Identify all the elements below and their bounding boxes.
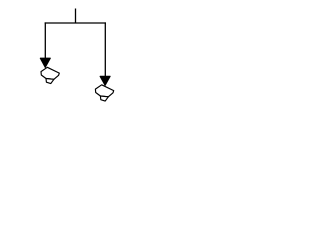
node: left slab icon (41, 67, 59, 83)
node: right slab icon (95, 85, 113, 101)
arrowhead left (40, 58, 50, 67)
arrowhead right (100, 76, 110, 85)
wire: right drop (104, 22, 106, 76)
wire: horizontal bar (45, 22, 106, 24)
wire: top stem (75, 9, 77, 24)
wire: left drop (44, 22, 46, 58)
